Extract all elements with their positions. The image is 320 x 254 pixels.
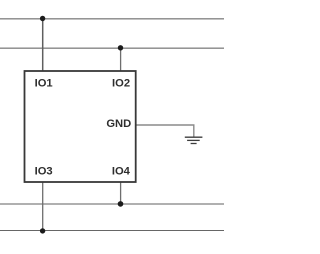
svg-text:IO1: IO1 (35, 78, 53, 90)
wire net4 bottom horizontal bus (0, 230, 224, 232)
wire IO2 pin to net2 (120, 48, 122, 71)
svg-text:IO2: IO2 (112, 78, 130, 90)
junction node IO3/net4 (40, 228, 45, 233)
wire IO1 pin to net1 (42, 19, 44, 71)
wire net2 second horizontal bus (0, 47, 224, 49)
wire net3 third horizontal bus (0, 203, 224, 205)
junction node IO2/net2 (118, 45, 123, 50)
wire IO3 pin to net4 (42, 183, 44, 232)
junction node IO1/net1 (40, 16, 45, 21)
wire net1 top horizontal bus (0, 18, 224, 20)
IC U1 body (25, 71, 136, 182)
wire IO4 pin to net3 (120, 183, 122, 205)
wire GND pin to ground (136, 125, 194, 137)
ground (185, 137, 203, 143)
svg-text:IO3: IO3 (35, 166, 53, 178)
junction node IO4/net3 (118, 201, 124, 207)
svg-text:GND: GND (106, 118, 131, 130)
svg-text:IO4: IO4 (112, 166, 131, 178)
